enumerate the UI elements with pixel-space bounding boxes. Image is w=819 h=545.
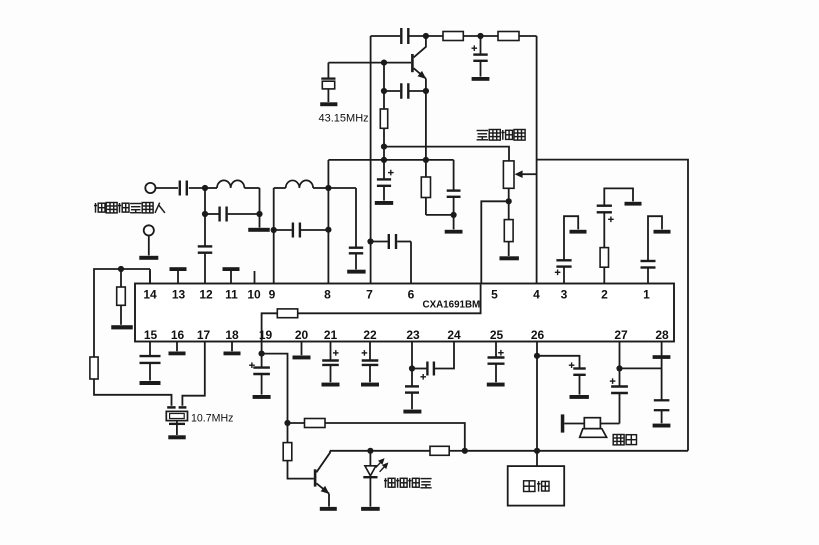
wire top rail left (pin7 riser) [370, 36, 372, 284]
ground bar over pin13 [170, 267, 187, 271]
wire pin9 up to L2 [273, 188, 275, 284]
ground G6 [375, 201, 393, 205]
node O [451, 212, 457, 218]
wire pin26 down to bottom rail [536, 342, 538, 451]
resistor R6 (pin2) [603, 267, 605, 283]
Q1 collector [414, 36, 426, 57]
svg-text:28: 28 [655, 328, 669, 342]
wire pin17 to filter [182, 342, 204, 406]
label speaker [613, 435, 624, 445]
ground G13 [168, 435, 185, 439]
node V [462, 448, 468, 454]
svg-text:1: 1 [643, 288, 650, 302]
capacitor C19 [405, 385, 419, 387]
svg-text:10.7MHz: 10.7MHz [191, 412, 233, 424]
electrolytic C17 (pin21) [330, 342, 332, 360]
ground G7 [445, 230, 463, 234]
node A (input/coil1) [202, 185, 208, 191]
ground bar G9 [570, 230, 587, 234]
svg-text:CXA1691BM: CXA1691BM [423, 300, 481, 311]
svg-text:20: 20 [295, 328, 309, 342]
wire node M rail [328, 159, 453, 161]
wire bar to speaker [564, 423, 584, 425]
svg-text:13: 13 [172, 288, 186, 302]
capacitor C5 [355, 188, 357, 247]
node W (pin23) [409, 365, 415, 371]
wire node A down [204, 188, 206, 207]
electrolytic C18 (pin22) [369, 342, 371, 360]
power box lead [536, 451, 538, 466]
wire R10 to Q2 base [288, 461, 314, 479]
svg-text:26: 26 [531, 328, 545, 342]
capacitor C2 (across L1) [218, 207, 220, 222]
node E (C4 tap) [271, 227, 277, 233]
svg-text:14: 14 [143, 288, 157, 302]
wire node D to C5 [328, 187, 356, 189]
node F [325, 227, 331, 233]
svg-text:10: 10 [247, 288, 261, 302]
U1 internal wire to label box [298, 285, 481, 314]
filter F1 top lead foot right [179, 406, 187, 409]
resistor R1 [443, 32, 463, 41]
ground G1 [248, 228, 270, 232]
resistor R5 [508, 201, 510, 219]
svg-text:6: 6 [408, 288, 415, 302]
electrolytic C7 [480, 36, 482, 54]
svg-text:11: 11 [225, 288, 238, 302]
node P (pin7 line) [367, 238, 373, 244]
electrolytic C12 (pin3) [563, 267, 565, 283]
svg-text:16: 16 [171, 328, 185, 342]
ground G12 [111, 325, 133, 329]
ceramic filter F1 10.7MHz body [166, 411, 187, 420]
wire node L to volume pot [384, 147, 509, 161]
ground bar over pin11 [223, 267, 240, 271]
node G (Q1 collector) [423, 33, 429, 39]
capacitor C10 [453, 160, 455, 190]
wire to R1 [426, 35, 443, 37]
svg-text:19: 19 [259, 328, 273, 342]
pot bottom lead [508, 188, 510, 201]
wire R9 to corner [325, 423, 465, 451]
ground G16 [320, 507, 337, 511]
electrolytic C23 (speaker coupling) [611, 385, 628, 387]
svg-text:2: 2 [601, 288, 608, 302]
ground bar pin20 [301, 342, 303, 356]
volume pot RP1 [503, 161, 514, 188]
node R [118, 266, 124, 272]
wire pin27 [619, 342, 621, 386]
wire left rail bottom [94, 379, 172, 406]
wire pin27 node to pin28 column [620, 367, 662, 369]
resistor R11 [430, 446, 449, 455]
electrolytic C21 (pin25) [495, 342, 497, 357]
Q1 base wire [328, 62, 411, 64]
ground G5 [320, 102, 337, 106]
node Q [506, 198, 512, 204]
node S (pin19) [259, 351, 265, 357]
capacitor C3 (pin12 series) [198, 245, 213, 247]
resistor R4 [425, 160, 427, 177]
ground G20 [570, 395, 589, 399]
svg-text:5: 5 [491, 288, 498, 302]
ground G4 [472, 77, 490, 81]
wire node T to R9 [288, 422, 305, 424]
node K [423, 88, 429, 94]
svg-text:18: 18 [225, 328, 239, 342]
inductor L1 [205, 187, 217, 189]
svg-text:43.15MHz: 43.15MHz [319, 113, 369, 125]
transistor Q1 base bar [411, 54, 414, 72]
node Y (bottom rail) [534, 448, 540, 454]
ground bar G11 [654, 230, 671, 234]
resistor R8 [90, 357, 98, 379]
inductor L2 [286, 180, 313, 188]
node Z (pin27) [616, 365, 622, 371]
capacitor C1 (input coupling) [179, 181, 181, 196]
wire R4 to node O [426, 214, 454, 216]
filter F1 ground lead [176, 424, 178, 435]
capacitor C4 (pin9-pin8) [274, 229, 292, 231]
wire crystal drop [327, 63, 329, 78]
wire pin4 riser / supply [536, 36, 538, 284]
svg-text:15: 15 [144, 328, 158, 342]
capacitor C14 (pin1) [647, 268, 649, 284]
resistor R7 [120, 269, 122, 287]
wire collector rail [330, 450, 430, 452]
svg-text:22: 22 [363, 328, 377, 342]
ground G19 [487, 383, 505, 387]
crystal X1 43.15MHz [321, 77, 335, 79]
node B [256, 211, 262, 217]
filter F1 top lead foot left [167, 406, 175, 409]
svg-text:24: 24 [447, 328, 461, 342]
svg-text:17: 17 [197, 328, 211, 342]
wire node Q to pin5 [481, 201, 508, 283]
capacitor C6 (osc feedback top) [400, 28, 402, 44]
node X (pin26) [534, 353, 540, 359]
electrolytic C20 (pin23-24) [412, 368, 426, 370]
ground G15 [253, 395, 271, 399]
Q2 emitter with arrow [316, 483, 329, 493]
speaker SP cone [580, 429, 607, 438]
node C [202, 211, 208, 217]
speaker SP terminal bar [561, 414, 565, 432]
ground G2 [139, 256, 158, 260]
electrolytic C13 (pin2) [603, 213, 605, 248]
ground bar pin16 [176, 342, 178, 352]
ground G8 [500, 256, 519, 260]
pot wiper arrow [522, 173, 537, 175]
svg-text:27: 27 [614, 328, 628, 342]
wire pin23 [411, 342, 413, 386]
electrolytic C16 [253, 366, 270, 368]
label volume control [477, 131, 488, 140]
transistor Q2 base bar [314, 469, 317, 486]
capacitor C24 [654, 399, 670, 401]
Q2 collector [316, 451, 330, 473]
svg-text:8: 8 [324, 288, 331, 302]
label FM signal input [94, 203, 105, 213]
svg-text:21: 21 [324, 328, 338, 342]
U1 internal resistor [277, 309, 297, 318]
wire Q2 emitter to ground [328, 494, 330, 507]
svg-text:4: 4 [533, 288, 540, 302]
resistor R3 [380, 109, 387, 128]
node H [477, 33, 483, 39]
input terminal J1 (FM antenna) [145, 183, 155, 193]
node U (LED anode) [367, 448, 373, 454]
IC U1 CXA1691BM body [135, 284, 674, 342]
wire pin19 stub [261, 342, 263, 367]
wire pin28 [661, 342, 663, 400]
ground G14 [140, 381, 161, 385]
wire R3 down [383, 128, 385, 179]
capacitor C8 (osc feedback bottom) [383, 63, 385, 109]
ground bar G10 [625, 202, 642, 206]
wire Q1 emitter down [425, 79, 427, 160]
capacitor C15 (pin15) [149, 342, 151, 356]
wire pin14 [149, 269, 151, 284]
resistor R10 (vertical) [283, 443, 292, 461]
wire supply to right rail [537, 160, 688, 451]
resistor R9 (horizontal) [305, 419, 326, 428]
wire to speaker [600, 423, 619, 425]
node M [381, 157, 387, 163]
electrolytic C9 [377, 178, 391, 180]
node J [381, 88, 387, 94]
bottom rail wires [465, 450, 537, 452]
svg-text:9: 9 [269, 288, 276, 302]
capacitor C11 (pin6 coupling) [410, 242, 412, 284]
label tuning indicator [384, 478, 395, 488]
left bias rail [94, 269, 150, 357]
U1 top pin stubs [149, 271, 151, 284]
ground G18 [403, 410, 421, 414]
ground bar pin18 [231, 342, 233, 352]
U1 internal wire from pin19 [262, 313, 278, 341]
LED D1 [369, 451, 371, 466]
ground G21 [653, 424, 671, 428]
LED light arrows [376, 460, 383, 468]
node I (base/R3) [381, 60, 387, 66]
resistor R2 [498, 32, 519, 41]
wire FM input to C1 [156, 187, 178, 189]
input terminal J2 [144, 225, 154, 235]
electrolytic C22 [537, 356, 580, 368]
node N (emitter junction) [423, 157, 429, 163]
wire pin8 vertical [327, 160, 329, 284]
ground G17 [361, 507, 380, 511]
node T [284, 420, 290, 426]
svg-text:3: 3 [561, 288, 568, 302]
wire L1 right to ground [259, 188, 261, 228]
svg-text:12: 12 [199, 288, 213, 302]
svg-text:25: 25 [490, 328, 504, 342]
wire J2 down [148, 236, 150, 256]
svg-text:7: 7 [366, 288, 373, 302]
node D (L2/pin8) [325, 185, 331, 191]
Q1 emitter with arrow [414, 68, 426, 78]
wire pin19 to R9 column [262, 354, 288, 443]
ground bar pin28 [653, 355, 671, 359]
node L [381, 144, 387, 150]
label power [524, 481, 535, 492]
power box [508, 466, 565, 506]
LED cathode to ground [369, 477, 371, 506]
speaker SP body [584, 418, 600, 429]
svg-text:23: 23 [406, 328, 420, 342]
filter F1 bottom foot [169, 423, 185, 425]
ground G3 [355, 254, 357, 269]
